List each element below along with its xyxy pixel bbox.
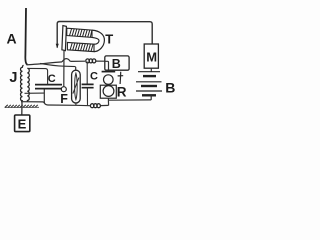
- svg-text:C: C: [48, 73, 56, 85]
- earth hatching: [5, 105, 38, 108]
- wire choke to box B: [96, 60, 105, 62]
- coil tap lower: [25, 92, 45, 94]
- svg-text:R: R: [117, 85, 127, 100]
- capacitor c bottom lead: [86, 88, 88, 106]
- capacitor c (second) top lead: [86, 62, 88, 84]
- svg-text:M: M: [146, 50, 157, 65]
- wire antenna to middle (top horizontal of mid row): [27, 62, 63, 65]
- capacitor c plates: [82, 84, 94, 87]
- coil J right winding: [27, 68, 29, 101]
- transformer T left bar: [62, 26, 67, 51]
- svg-text:A: A: [7, 31, 17, 47]
- svg-text:E: E: [18, 116, 27, 131]
- ground bus wire left part: [44, 89, 90, 106]
- M to battery stub: [150, 68, 152, 71]
- wire inside box down to receiver: [105, 61, 109, 71]
- svg-text:C: C: [90, 71, 98, 83]
- capacitor C (first) plates: [35, 85, 62, 89]
- wire secondary top to tube top: [40, 63, 76, 66]
- receiver lower circle: [103, 86, 114, 97]
- box around lower circle R: [100, 85, 116, 98]
- battery B: [136, 72, 162, 96]
- top bus wire: [57, 22, 152, 48]
- earth lead down: [21, 101, 23, 115]
- small coil in ground bus: [90, 104, 100, 108]
- T lower winding: [67, 42, 94, 51]
- T upper winding: [67, 28, 92, 37]
- meter box M: [144, 44, 158, 68]
- svg-text:F: F: [60, 92, 68, 106]
- svg-text:B: B: [165, 80, 175, 96]
- receiver top plate: [102, 71, 116, 73]
- wire hop over vertical: [62, 59, 70, 62]
- tube top stub: [75, 67, 77, 71]
- detector tube F: [72, 70, 81, 103]
- wire receiver to battery bottom: [108, 99, 151, 101]
- tube bottom stub: [75, 103, 77, 105]
- box B (telephone box): [105, 56, 129, 70]
- earth box E: [15, 115, 30, 132]
- small f mark: [118, 72, 124, 84]
- svg-text:T: T: [105, 31, 113, 46]
- capacitor C top lead from secondary wire: [27, 68, 47, 84]
- wire from T down to detector terminal: [63, 51, 65, 87]
- svg-text:B: B: [112, 57, 121, 71]
- jog down to ground bus: [107, 100, 109, 105]
- svg-text:J: J: [9, 70, 17, 86]
- receiver upper circle: [104, 75, 114, 85]
- receiver bottom stub: [107, 98, 109, 100]
- battery bottom stub: [150, 95, 152, 100]
- coil J left winding: [21, 65, 24, 101]
- wire hop to choke: [70, 60, 85, 62]
- arrow head (tap of T): [56, 44, 59, 49]
- coil bottom wire: [21, 102, 44, 104]
- T loop (right connecting arc): [92, 30, 104, 51]
- terminal circle: [61, 87, 66, 92]
- antenna lead A: [25, 8, 27, 65]
- ground bus wire right part: [100, 104, 108, 106]
- choke coil (small loops): [86, 59, 96, 63]
